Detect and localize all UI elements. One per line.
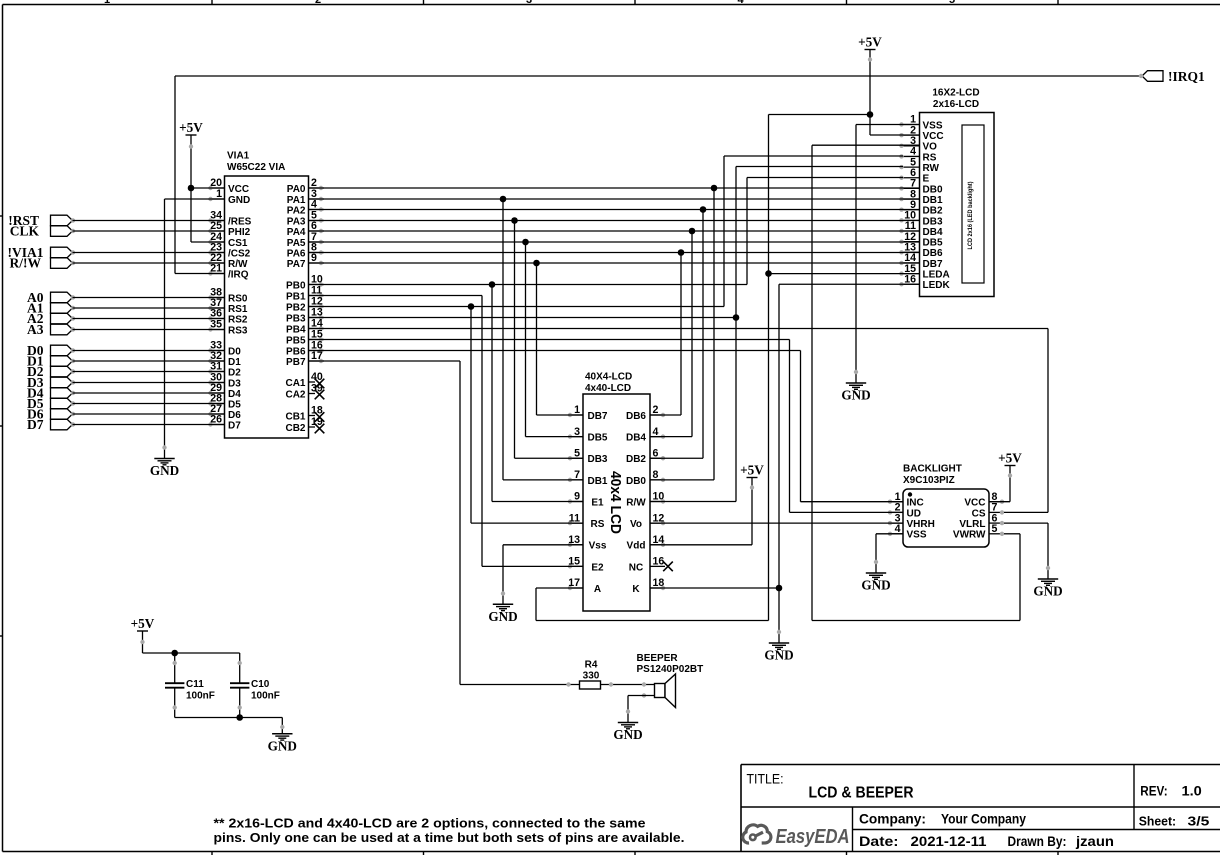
svg-text:RS3: RS3: [228, 325, 248, 336]
wire PA3 branch to 40X4: [515, 221, 584, 459]
svg-text:DB2: DB2: [626, 454, 646, 465]
wire PA4 branch to 40X4: [650, 231, 692, 437]
svg-text:VCC: VCC: [923, 131, 944, 142]
port D0: [27, 343, 75, 358]
svg-text:DB7: DB7: [587, 411, 607, 422]
wire PA1 to 16X2 DB1: [309, 198, 920, 200]
svg-text:DB5: DB5: [923, 238, 943, 249]
wire +5V to 40X4 Vdd: [650, 544, 752, 546]
resistor R4 330: [566, 660, 613, 690]
svg-text:D2: D2: [228, 367, 241, 378]
wire PB4 to BACKLIGHT CS: [309, 329, 1049, 513]
svg-text:Date:: Date:: [859, 834, 899, 849]
junction PB3: [733, 314, 740, 321]
svg-text:VCC: VCC: [964, 498, 985, 509]
svg-text:C10: C10: [251, 679, 270, 690]
svg-text:** 2x16-LCD and 4x40-LCD are 2: ** 2x16-LCD and 4x40-LCD are 2 options, …: [214, 817, 646, 831]
svg-text:PB3: PB3: [286, 313, 306, 324]
port !VIA1: [8, 245, 76, 260]
wire D0 to VIA1: [73, 350, 225, 352]
wire LEDA pin15 stub: [769, 273, 920, 275]
svg-text:/RES: /RES: [228, 216, 252, 227]
junction C11 top: [171, 650, 178, 657]
svg-text:PS1240P02BT: PS1240P02BT: [637, 664, 704, 675]
svg-text:GND: GND: [228, 195, 250, 206]
svg-text:Vdd: Vdd: [627, 541, 646, 552]
svg-text:PB5: PB5: [286, 335, 306, 346]
wire PB6 to BACKLIGHT INC: [309, 351, 904, 502]
wire PB0 branch to 40X4 E1: [492, 285, 583, 502]
svg-text:40X4-LCD: 40X4-LCD: [585, 372, 632, 383]
junction PA4: [689, 228, 696, 235]
wire PA1 branch to 40X4: [503, 199, 583, 480]
wire PA2 branch to 40X4: [650, 210, 703, 459]
svg-text:/IRQ: /IRQ: [228, 269, 249, 280]
svg-text:DB2: DB2: [923, 206, 943, 217]
svg-text:REV:: REV:: [1140, 784, 1167, 799]
svg-text:D7: D7: [27, 417, 44, 432]
ground GND below VLRL: [1033, 566, 1062, 599]
power +5V above 16X2: [858, 35, 882, 136]
wire !VIA1 to VIA1: [73, 252, 225, 254]
wire PA3 to 16X2 DB3: [309, 220, 920, 222]
svg-text:GND: GND: [861, 578, 890, 593]
wire capacitor bottoms to GND: [175, 718, 283, 726]
port A2: [27, 311, 75, 326]
svg-text:VIA1: VIA1: [227, 151, 250, 162]
svg-text:GND: GND: [268, 738, 297, 753]
power +5V at BACKLIGHT VCC: [998, 451, 1022, 502]
wire R/!W to VIA1: [73, 262, 225, 264]
svg-text:5: 5: [949, 0, 955, 6]
port !RST: [8, 213, 75, 228]
svg-text:PA0: PA0: [287, 184, 306, 195]
svg-text:A3: A3: [27, 322, 44, 337]
svg-text:LEDA: LEDA: [923, 270, 950, 281]
svg-text:CA1: CA1: [285, 378, 305, 389]
svg-text:C11: C11: [186, 679, 204, 690]
wire A2 to VIA1: [73, 318, 225, 320]
port D5: [27, 396, 75, 411]
svg-text:DB5: DB5: [587, 433, 607, 444]
svg-text:CB1: CB1: [285, 411, 305, 422]
wire PA0 branch to 40X4: [650, 188, 714, 480]
VIA1 pin CB2 no-connect: [285, 416, 324, 434]
svg-text:D6: D6: [228, 410, 241, 421]
VIA1 pin CA2 no-connect: [285, 383, 324, 401]
svg-text:+5V: +5V: [998, 451, 1022, 466]
wire +5V rail to capacitors: [143, 653, 240, 683]
wire PA7 to 16X2 DB7: [309, 262, 920, 264]
port A0: [27, 290, 75, 305]
svg-text:E1: E1: [591, 497, 604, 508]
IC BACKLIGHT X9C103PIZ box: [903, 464, 989, 548]
svg-text:K: K: [632, 584, 640, 595]
svg-text:E2: E2: [591, 562, 604, 573]
svg-text:Company:: Company:: [859, 812, 926, 827]
wire 16X2 VO to BACKLIGHT VWRW: [812, 145, 1020, 620]
svg-text:DB7: DB7: [923, 259, 943, 270]
title block Company: [859, 812, 1026, 827]
wire PB5 to BACKLIGHT UD: [309, 340, 904, 513]
svg-text:40x4 LCD: 40x4 LCD: [607, 471, 623, 534]
junction PA0: [711, 185, 718, 192]
beeper BEEPER PS1240P02BT: [637, 653, 704, 708]
logo EasyEDA: [743, 825, 771, 843]
svg-text:R4: R4: [585, 660, 598, 671]
wire +5V to BACKLIGHT VCC: [989, 501, 1010, 503]
svg-text:+5V: +5V: [740, 463, 764, 478]
svg-text:R/W: R/W: [228, 259, 248, 270]
svg-text:PA3: PA3: [287, 216, 306, 227]
svg-text:D3: D3: [228, 378, 241, 389]
svg-text:RS1: RS1: [228, 304, 248, 315]
svg-text:+5V: +5V: [131, 616, 155, 631]
wire PB2 to 16X2 RS: [309, 156, 904, 307]
svg-text:DB6: DB6: [923, 248, 943, 259]
wire A0 to VIA1: [73, 297, 225, 299]
svg-text:!IRQ1: !IRQ1: [1168, 69, 1205, 84]
40X4-LCD right pin stubs: [626, 404, 665, 595]
svg-text:16X2-LCD: 16X2-LCD: [932, 88, 979, 99]
wire 16X2 VSS to GND: [856, 125, 920, 371]
wire A3 to VIA1: [73, 329, 225, 331]
capacitor C10 100nF: [230, 661, 280, 718]
svg-text:TITLE:: TITLE:: [747, 772, 784, 787]
svg-text:INC: INC: [907, 498, 924, 509]
svg-text:W65C22 VIA: W65C22 VIA: [227, 162, 285, 173]
junction PA7: [533, 260, 540, 267]
svg-text:DB4: DB4: [626, 433, 646, 444]
port R/!W: [10, 255, 76, 270]
svg-text:VLRL: VLRL: [959, 519, 985, 530]
power +5V at 40X4 Vdd: [740, 463, 764, 545]
wire PB3 to 16X2 RW and 40X4 R/W: [309, 167, 904, 502]
svg-text:PB4: PB4: [286, 324, 306, 335]
svg-text:VSS: VSS: [907, 530, 927, 541]
svg-text:RS2: RS2: [228, 314, 248, 325]
svg-text:LCD 2x16 (LED backlight): LCD 2x16 (LED backlight): [968, 182, 974, 250]
svg-text:D7: D7: [228, 420, 241, 431]
wire PB2 branch to 40X4 RS: [471, 307, 583, 524]
svg-text:DB1: DB1: [587, 476, 607, 487]
ground GND below capacitors: [268, 725, 297, 754]
VIA1 pin CA1 no-connect: [285, 371, 324, 389]
svg-text:LEDK: LEDK: [923, 280, 951, 291]
svg-text:X9C103PIZ: X9C103PIZ: [903, 475, 955, 486]
svg-text:4x40-LCD: 4x40-LCD: [585, 383, 631, 394]
svg-text:1.0: 1.0: [1182, 784, 1202, 799]
svg-text:/CS2: /CS2: [228, 248, 251, 259]
svg-text:+5V: +5V: [179, 120, 203, 135]
svg-text:CS1: CS1: [228, 238, 248, 249]
svg-text:GND: GND: [841, 388, 870, 403]
16X2-LCD pin stubs 1-16: [899, 114, 950, 291]
svg-text:2021-12-11: 2021-12-11: [911, 834, 988, 849]
svg-text:DB4: DB4: [923, 227, 943, 238]
port D6: [27, 406, 75, 421]
svg-text:E: E: [923, 174, 930, 185]
wire D3 to VIA1: [73, 382, 225, 384]
junction K LEDK: [776, 585, 783, 592]
VIA1 pin CB1 no-connect: [285, 405, 324, 423]
svg-text:jzaun: jzaun: [1075, 834, 1114, 849]
port D1: [27, 353, 75, 368]
svg-text:D0: D0: [228, 346, 241, 357]
junction PA5: [522, 239, 529, 246]
VIA1 left pin stubs: [208, 177, 251, 431]
IC 16X2-LCD 2x16-LCD box: [920, 88, 995, 297]
IC VIA1 W65C22 box: [225, 151, 309, 439]
svg-text:CLK: CLK: [10, 223, 40, 238]
svg-text:BACKLIGHT: BACKLIGHT: [903, 464, 962, 475]
svg-text:RS0: RS0: [228, 293, 248, 304]
wire D6 to VIA1: [73, 413, 225, 415]
note text about LCD options: [214, 817, 685, 846]
port D4: [27, 385, 75, 400]
port D2: [27, 364, 75, 379]
svg-text:GND: GND: [1033, 584, 1062, 599]
wire BACKLIGHT VSS to GND: [876, 534, 903, 561]
wire PA2 to 16X2 DB2: [309, 209, 920, 211]
junction PB0: [489, 281, 496, 288]
svg-text:D5: D5: [228, 399, 241, 410]
junction +5V LEDA branch: [867, 111, 874, 118]
wire 40X4 Vo to BACKLIGHT VHRH: [650, 522, 903, 524]
svg-text:Your Company: Your Company: [941, 812, 1026, 827]
svg-text:D4: D4: [228, 389, 241, 400]
ground GND below 16X2: [841, 370, 870, 403]
wire +5V to CS1 pin24: [191, 188, 225, 242]
wire !RST to VIA1: [73, 220, 225, 222]
junction PB2: [468, 303, 475, 310]
svg-text:VWRW: VWRW: [953, 530, 986, 541]
svg-text:DB3: DB3: [587, 454, 607, 465]
wire GND pin1: [165, 199, 225, 446]
junction PA6: [678, 249, 685, 256]
wire D4 to VIA1: [73, 392, 225, 394]
svg-text:pins. Only one can be used at: pins. Only one can be used at a time but…: [214, 831, 685, 845]
wire PA5 to 16X2 DB5: [309, 241, 920, 243]
svg-text:GND: GND: [613, 727, 642, 742]
junction PA1: [500, 196, 507, 203]
port !IRQ1 output: [1139, 69, 1205, 84]
wire 40X4 K to LEDK net: [650, 587, 779, 589]
svg-text:D1: D1: [228, 357, 241, 368]
wire D2 to VIA1: [73, 371, 225, 373]
wire A1 to VIA1: [73, 307, 225, 309]
svg-text:GND: GND: [764, 648, 793, 663]
svg-text:RS: RS: [591, 519, 605, 530]
title block TITLE text: [747, 772, 914, 802]
svg-text:4: 4: [737, 0, 744, 6]
wire +5V branch to LEDA and 40X4 A: [536, 115, 870, 621]
svg-text:R/W: R/W: [626, 497, 646, 508]
IC 40X4-LCD 4x40-LCD box: [583, 372, 650, 612]
wire PB0 to 16X2 E: [309, 178, 904, 285]
VIA1 right pin stubs PA0-PA7 PB0-PB7: [286, 177, 324, 368]
svg-text:DB6: DB6: [626, 411, 646, 422]
svg-text:R/!W: R/!W: [10, 255, 42, 270]
port D3: [27, 375, 75, 390]
wire PA5 branch to 40X4: [526, 242, 584, 437]
svg-text:+5V: +5V: [858, 35, 882, 50]
wire PA0 to 16X2 DB0: [309, 187, 920, 189]
svg-text:CB2: CB2: [285, 423, 305, 434]
svg-text:VSS: VSS: [923, 120, 943, 131]
title block: [741, 765, 1220, 852]
svg-text:DB3: DB3: [923, 216, 943, 227]
svg-text:Vss: Vss: [589, 541, 607, 552]
wire D5 to VIA1: [73, 403, 225, 405]
svg-text:1: 1: [104, 0, 110, 6]
svg-text:16: 16: [653, 556, 665, 568]
BACKLIGHT right pin stubs: [953, 491, 1004, 541]
svg-text:UD: UD: [907, 508, 921, 519]
svg-text:PA7: PA7: [287, 259, 306, 270]
svg-text:PA4: PA4: [287, 227, 306, 238]
svg-text:RS: RS: [923, 152, 937, 163]
svg-text:2x16-LCD: 2x16-LCD: [933, 99, 979, 110]
svg-text:VCC: VCC: [228, 184, 249, 195]
svg-text:PB6: PB6: [286, 346, 306, 357]
svg-text:Sheet:: Sheet:: [1139, 814, 1176, 829]
port A1: [27, 300, 75, 315]
wire PA6 to 16X2 DB6: [309, 252, 920, 254]
wire PA4 to 16X2 DB4: [309, 230, 920, 232]
svg-text:Drawn By:: Drawn By:: [1008, 834, 1067, 849]
wire BACKLIGHT VLRL to GND: [1004, 523, 1048, 566]
40X4-LCD left pin stubs: [568, 404, 608, 595]
svg-text:5: 5: [992, 523, 998, 535]
wire +5V to VCC pin20: [191, 187, 225, 189]
svg-text:3: 3: [526, 0, 532, 6]
wire PA7 branch to 40X4: [537, 263, 584, 415]
junction +5V/VCC: [188, 185, 195, 192]
svg-text:PA1: PA1: [287, 195, 306, 206]
svg-text:2: 2: [315, 0, 321, 6]
power +5V at VIA1: [179, 120, 203, 188]
wire beeper negative to GND: [628, 696, 655, 711]
svg-text:330: 330: [583, 671, 600, 682]
wire PB7 to beeper R4: [309, 361, 655, 685]
title block Date and Drawn By: [859, 834, 1114, 849]
svg-text:LCD & BEEPER: LCD & BEEPER: [809, 784, 914, 801]
svg-text:DB0: DB0: [923, 184, 943, 195]
svg-text:RW: RW: [923, 163, 940, 174]
svg-text:PB1: PB1: [286, 291, 306, 302]
ground GND below 40X4: [488, 591, 517, 624]
svg-text:PA5: PA5: [287, 238, 306, 249]
svg-text:BEEPER: BEEPER: [637, 653, 679, 664]
svg-text:GND: GND: [488, 609, 517, 624]
port A3: [27, 322, 75, 337]
port D7: [27, 417, 75, 432]
svg-text:PB7: PB7: [286, 357, 306, 368]
ground GND below K net: [764, 630, 793, 663]
wire D7 to VIA1: [73, 424, 225, 426]
svg-text:GND: GND: [150, 463, 179, 478]
svg-text:DB1: DB1: [923, 195, 943, 206]
junction PA2: [700, 206, 707, 213]
ground GND at VIA1: [150, 445, 179, 478]
BACKLIGHT left pin stubs: [888, 491, 935, 541]
wire 40X4 Vss to GND: [503, 545, 583, 592]
wire PA6 branch to 40X4: [650, 253, 681, 416]
40X4-LCD pin16 NC no-connect X: [663, 562, 673, 572]
title block Sheet: [1139, 814, 1210, 829]
title block REV: [1140, 784, 1202, 799]
wire D1 to VIA1: [73, 360, 225, 362]
svg-text:PB2: PB2: [286, 302, 306, 313]
svg-text:PA6: PA6: [287, 248, 306, 259]
svg-text:Vo: Vo: [630, 519, 642, 530]
svg-text:100nF: 100nF: [251, 691, 280, 702]
junction C10 bottom: [236, 714, 243, 721]
wire 16X2 LEDK to GND: [779, 284, 920, 630]
svg-text:VO: VO: [923, 142, 938, 153]
wire PB1 to 40X4 E2: [309, 296, 584, 567]
svg-text:PA2: PA2: [287, 205, 306, 216]
svg-text:DB0: DB0: [626, 476, 646, 487]
svg-text:PHI2: PHI2: [228, 227, 251, 238]
junction PA3: [511, 217, 518, 224]
svg-text:CS: CS: [972, 508, 986, 519]
svg-text:CA2: CA2: [285, 389, 305, 400]
port CLK: [10, 223, 75, 238]
wire +5V to 16X2 VCC: [870, 134, 920, 136]
svg-text:PB0: PB0: [286, 280, 306, 291]
power +5V at capacitors: [131, 616, 155, 653]
ground GND below BACKLIGHT VSS: [861, 560, 890, 593]
junction LEDA: [765, 270, 772, 277]
svg-text:EasyEDA: EasyEDA: [776, 825, 850, 848]
wire /IRQ pin21 to !IRQ1: [175, 76, 1142, 274]
svg-text:NC: NC: [629, 562, 643, 573]
svg-text:100nF: 100nF: [186, 691, 215, 702]
capacitor C11 100nF: [165, 653, 215, 718]
svg-text:3/5: 3/5: [1188, 814, 1210, 829]
svg-text:A: A: [594, 584, 601, 595]
wire CLK to VIA1: [73, 230, 225, 232]
svg-text:VHRH: VHRH: [907, 519, 935, 530]
ground GND below beeper: [613, 709, 642, 742]
